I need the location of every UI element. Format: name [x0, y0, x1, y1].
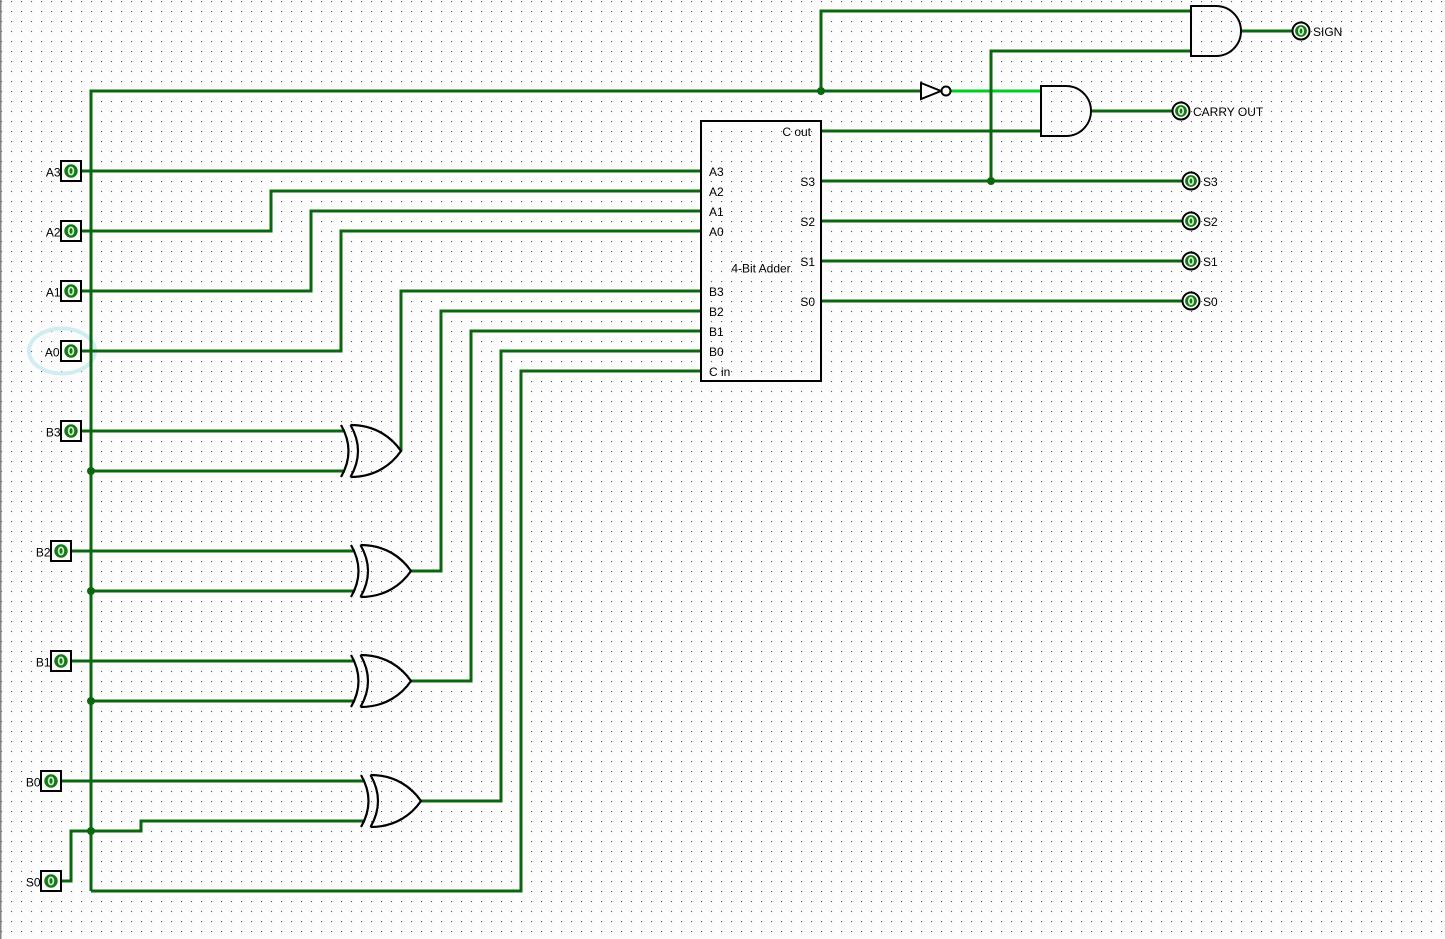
- svg-text:A1: A1: [709, 205, 724, 219]
- svg-text:A0: A0: [45, 346, 60, 360]
- svg-text:S0: S0: [26, 876, 41, 890]
- svg-text:B0: B0: [709, 345, 724, 359]
- svg-text:A3: A3: [46, 166, 61, 180]
- svg-text:SIGN: SIGN: [1313, 25, 1342, 39]
- svg-text:B3: B3: [46, 426, 61, 440]
- svg-text:A1: A1: [46, 286, 61, 300]
- svg-text:B2: B2: [709, 305, 724, 319]
- svg-text:4-Bit Adder: 4-Bit Adder: [731, 262, 790, 276]
- svg-text:C out: C out: [782, 125, 811, 139]
- svg-text:B1: B1: [709, 325, 724, 339]
- svg-text:B2: B2: [36, 546, 51, 560]
- svg-text:B0: B0: [26, 776, 41, 790]
- svg-text:A0: A0: [709, 225, 724, 239]
- svg-text:C in: C in: [709, 365, 730, 379]
- svg-text:A3: A3: [709, 165, 724, 179]
- svg-text:S2: S2: [800, 215, 815, 229]
- svg-text:S2: S2: [1203, 215, 1218, 229]
- svg-text:B1: B1: [36, 656, 51, 670]
- svg-text:S3: S3: [1203, 175, 1218, 189]
- svg-text:A2: A2: [46, 226, 61, 240]
- svg-text:S0: S0: [1203, 295, 1218, 309]
- svg-text:S0: S0: [800, 295, 815, 309]
- svg-text:A2: A2: [709, 185, 724, 199]
- svg-text:S1: S1: [1203, 255, 1218, 269]
- svg-text:B3: B3: [709, 285, 724, 299]
- svg-text:S1: S1: [800, 255, 815, 269]
- svg-text:S3: S3: [800, 175, 815, 189]
- svg-text:CARRY OUT: CARRY OUT: [1193, 105, 1264, 119]
